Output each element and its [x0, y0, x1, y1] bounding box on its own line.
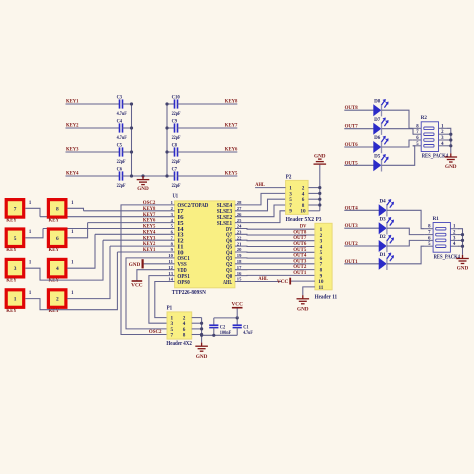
- svg-text:GND: GND: [137, 186, 149, 192]
- header P3 body: [315, 223, 332, 289]
- svg-text:18: 18: [237, 259, 242, 264]
- wire OUT7 into D7: [344, 128, 373, 130]
- svg-text:4.7uF: 4.7uF: [117, 112, 127, 117]
- resistor pack R2: [421, 122, 438, 152]
- wire KEY2 to C4: [66, 127, 120, 129]
- svg-text:D5: D5: [374, 154, 381, 159]
- wire OUT3 into D3: [344, 227, 379, 229]
- capacitor C10: [175, 99, 178, 108]
- wire KEY4 to C6: [66, 175, 120, 177]
- junction P1 gnd line r2: [200, 322, 203, 325]
- svg-text:4: 4: [56, 266, 59, 272]
- wire D1 to R1.5: [387, 246, 425, 264]
- wire C8 to KEY6: [178, 151, 238, 153]
- capacitor C7: [175, 171, 178, 180]
- wire key1 to KEY1 net: [25, 252, 117, 310]
- wire KEY1 net to U1.9: [117, 251, 174, 253]
- svg-text:C5: C5: [117, 143, 123, 148]
- wire right bus to C8: [167, 151, 175, 153]
- wire OUT4 net: U1.19 to P3.6: [235, 257, 315, 259]
- wire OUT8 net: U1.23 to P3.2: [235, 233, 315, 236]
- vcc power port VCC above C1: [232, 307, 243, 309]
- wire R1 joiner 240: [458, 239, 462, 241]
- svg-text:AHL: AHL: [258, 276, 268, 282]
- wire OUT4 into D4: [344, 209, 379, 211]
- svg-text:15: 15: [237, 277, 242, 282]
- svg-text:GND: GND: [314, 154, 326, 160]
- wire R1 pin1 gnd line: [458, 229, 462, 255]
- wire C4 to left bus: [123, 127, 132, 129]
- svg-text:KEY7: KEY7: [225, 122, 238, 128]
- vcc power port VCC at U1.12: [132, 280, 143, 282]
- svg-text:KEY: KEY: [49, 218, 60, 224]
- svg-text:OPS0: OPS0: [177, 279, 189, 286]
- pin stub R1 pin 7: [425, 234, 434, 236]
- svg-text:D3: D3: [380, 217, 387, 222]
- wire right bus to C9: [167, 127, 175, 129]
- ground ground below P3: [297, 295, 310, 304]
- capacitor C8: [175, 147, 178, 156]
- svg-text:27: 27: [237, 206, 242, 211]
- junction right bus bottom: [165, 174, 168, 177]
- svg-text:RES_PACK4: RES_PACK4: [434, 254, 460, 260]
- wire U1.13 OPS1 to P1.3: [149, 276, 175, 324]
- capacitor C9: [175, 123, 178, 132]
- svg-text:5: 5: [171, 224, 174, 229]
- svg-text:KEY: KEY: [6, 247, 17, 253]
- svg-text:D4: D4: [380, 199, 387, 204]
- svg-text:C7: C7: [172, 167, 178, 172]
- svg-text:P2: P2: [286, 174, 292, 180]
- svg-text:4.7uF: 4.7uF: [117, 136, 127, 141]
- resistor element R1c: [436, 239, 446, 242]
- svg-text:P1: P1: [167, 306, 173, 312]
- key pad switch 6: [48, 229, 66, 247]
- svg-text:1: 1: [71, 201, 74, 206]
- svg-text:Header 4X2: Header 4X2: [166, 341, 192, 347]
- svg-text:VCC: VCC: [131, 282, 143, 288]
- junction R1 gnd line 240: [461, 239, 464, 242]
- wire key8 to KEY8 net: [67, 208, 83, 211]
- svg-text:KEY5: KEY5: [225, 170, 238, 176]
- LED D3: [379, 223, 386, 234]
- svg-text:10: 10: [168, 253, 173, 258]
- pin stub R2 pin 7: [413, 133, 422, 135]
- svg-text:6: 6: [171, 230, 174, 235]
- junction gnd rail joins P1 line: [200, 334, 203, 337]
- svg-text:3: 3: [171, 212, 174, 217]
- svg-text:3: 3: [14, 266, 17, 272]
- svg-text:22pF: 22pF: [117, 160, 126, 165]
- junction R2 gnd line 146: [449, 144, 452, 147]
- wire KEY7 net to U1.3: [40, 216, 175, 218]
- pin stub R2 pin 4: [439, 145, 448, 147]
- wire KEY6 net to U1.4: [88, 222, 175, 224]
- svg-text:D6: D6: [374, 136, 381, 141]
- pin stub R2 pin 6: [413, 139, 422, 141]
- svg-text:28: 28: [237, 200, 242, 205]
- junction P2 gnd line row 1: [318, 186, 321, 189]
- svg-text:2: 2: [171, 206, 174, 211]
- svg-text:OSC2: OSC2: [149, 329, 162, 335]
- wire OUT1 net: U1.16 to P3.9: [235, 274, 315, 276]
- svg-text:22pF: 22pF: [172, 136, 181, 141]
- wire key2 to KEY2 net: [67, 246, 110, 299]
- wire C10 to KEY8: [178, 103, 238, 105]
- junction P2 gnd line row 2: [318, 192, 321, 195]
- svg-text:20: 20: [237, 247, 242, 252]
- wire OUT6 net: U1.21 to P3.4: [235, 245, 315, 247]
- svg-text:4: 4: [171, 218, 174, 223]
- svg-text:14: 14: [168, 277, 173, 282]
- svg-text:R1: R1: [433, 216, 439, 222]
- svg-text:C4: C4: [117, 119, 123, 124]
- svg-text:21: 21: [237, 241, 242, 246]
- resistor element R2d: [424, 145, 434, 148]
- svg-text:KEY8: KEY8: [225, 98, 238, 104]
- wire C2 bottom stub: [213, 328, 215, 336]
- wire D2 to R1.6: [387, 240, 425, 246]
- capacitor C3: [120, 99, 123, 108]
- svg-text:7: 7: [171, 235, 174, 240]
- svg-text:D2: D2: [380, 235, 387, 240]
- wire P1.8 to gnd line: [192, 334, 202, 336]
- wire caps gnd rail: [202, 334, 238, 336]
- ground cap network ground: [137, 176, 150, 185]
- junction P2 gnd line row 4: [318, 203, 321, 206]
- svg-text:GND: GND: [457, 266, 469, 272]
- svg-text:4.7uF: 4.7uF: [243, 331, 253, 336]
- wire key7 to KEY7 net: [25, 208, 40, 216]
- wire right bus to C10: [167, 103, 175, 105]
- LED D2: [379, 241, 386, 252]
- pin stub R2 pin 3: [439, 139, 448, 141]
- wire OUT5 net: U1.20 to P3.5: [235, 251, 315, 253]
- wire OSC2 net: U1.1 to P1.7: [121, 205, 175, 335]
- wire C1 bottom stub: [236, 328, 238, 336]
- wire R2 joiner 140: [447, 139, 451, 141]
- svg-text:1: 1: [29, 291, 32, 296]
- wire P1.2 to gnd line: [192, 317, 202, 319]
- IC U1 TTP226-809SN body: [175, 201, 235, 288]
- ground ground below P1: [195, 343, 208, 352]
- wire key4 to KEY4 net: [67, 234, 95, 268]
- svg-text:U1: U1: [173, 193, 179, 199]
- pin stub R1 pin 6: [425, 239, 434, 241]
- key pad switch 8: [48, 200, 66, 218]
- wire OUT1 into D1: [344, 263, 379, 265]
- pin stub R1 pin 3: [450, 239, 459, 241]
- svg-text:C8: C8: [172, 143, 178, 148]
- capacitor C4: [120, 123, 123, 132]
- svg-text:22pF: 22pF: [172, 112, 181, 117]
- wire P1 even pins gnd line: [201, 318, 203, 343]
- svg-text:C2: C2: [220, 325, 226, 330]
- junction GND tap on cap bus: [141, 174, 144, 177]
- wire KEY1 to C3: [66, 103, 120, 105]
- wire R2 pin1 gnd line: [447, 128, 451, 153]
- wire key5 to KEY5 net: [25, 229, 43, 238]
- svg-text:2: 2: [56, 297, 59, 303]
- svg-text:8: 8: [171, 241, 174, 246]
- svg-text:AHL: AHL: [223, 279, 232, 286]
- wire KEY8 net to U1.2: [84, 210, 175, 212]
- wire U1.11 VSS to GND port: [144, 263, 175, 265]
- wire U1.14 OPS0 to P1.1: [155, 282, 175, 318]
- svg-text:VCC: VCC: [231, 302, 243, 308]
- pin stub R1 pin 8: [425, 228, 434, 230]
- wire KEY4 net to U1.6: [95, 233, 175, 235]
- wire KEY3 to C5: [66, 151, 120, 153]
- junction left bus row 152: [130, 150, 133, 153]
- svg-text:13: 13: [168, 271, 173, 276]
- wire R2 joiner 134: [447, 133, 451, 135]
- svg-text:KEY1: KEY1: [143, 247, 156, 253]
- wire D3 to R1.7: [387, 228, 425, 234]
- wire C5 to left bus: [123, 151, 132, 153]
- pin stub R1 pin 1: [450, 228, 459, 230]
- svg-text:1: 1: [29, 201, 32, 206]
- wire key6 to KEY6 net: [67, 223, 88, 238]
- junction right bus row 104: [165, 102, 168, 105]
- resistor element R1a: [436, 227, 446, 230]
- svg-text:AHL: AHL: [255, 182, 265, 188]
- svg-text:19: 19: [237, 253, 242, 258]
- wire D6 to R2.6: [382, 140, 413, 147]
- svg-text:1: 1: [71, 291, 74, 296]
- wire AHL net stub at U1.15: [235, 281, 282, 283]
- svg-text:22: 22: [237, 235, 242, 240]
- wire P1.4 to gnd line: [192, 322, 202, 324]
- wire KEY3 net to U1.7: [103, 239, 175, 241]
- svg-text:11: 11: [318, 285, 323, 291]
- svg-text:1: 1: [14, 297, 17, 303]
- junction R1 gnd line 235: [461, 233, 464, 236]
- ground bar power port at U1.11: [142, 259, 144, 268]
- wire C7 to KEY5: [178, 175, 238, 177]
- pin stub R2 pin 8: [413, 127, 422, 129]
- junction left bus row 128: [130, 126, 133, 129]
- wire D5 to R2.5: [382, 146, 415, 166]
- svg-text:17: 17: [237, 265, 242, 270]
- svg-text:22pF: 22pF: [117, 184, 126, 189]
- svg-text:KEY: KEY: [6, 278, 17, 284]
- key pad switch 5: [6, 229, 24, 247]
- wire C2 top stub: [213, 318, 215, 325]
- junction R2 gnd line 140: [449, 138, 452, 141]
- svg-text:10: 10: [300, 209, 306, 215]
- LED D1: [379, 258, 386, 269]
- wire OUT8 into D8: [344, 109, 373, 111]
- svg-text:OUT1: OUT1: [293, 270, 306, 276]
- wire OUT3 net: U1.18 to P3.7: [235, 263, 315, 265]
- vcc power port at P3.10: [289, 278, 291, 285]
- resistor element R2c: [424, 139, 434, 142]
- LED D4: [379, 205, 386, 216]
- svg-text:1: 1: [71, 261, 74, 266]
- wire C1 top stub: [236, 318, 238, 325]
- resistor element R2b: [424, 133, 434, 136]
- svg-text:C10: C10: [172, 95, 181, 100]
- svg-text:5: 5: [14, 236, 17, 242]
- pin stub R2 pin 2: [439, 133, 448, 135]
- svg-text:KEY: KEY: [6, 308, 17, 314]
- LED D5: [374, 160, 381, 171]
- svg-text:TTP226-809SN: TTP226-809SN: [172, 290, 207, 296]
- svg-text:GND: GND: [196, 354, 208, 360]
- wire P1.6 to gnd line: [192, 328, 202, 330]
- wire D4 to R1.8: [387, 210, 425, 228]
- svg-text:GND: GND: [445, 164, 457, 170]
- resistor element R2a: [424, 127, 434, 130]
- capacitor C1: [233, 325, 242, 327]
- wire R2 joiner 146: [447, 145, 451, 147]
- ground ground at R1: [456, 255, 469, 264]
- LED D8: [374, 105, 381, 116]
- wire KEY5 net to U1.5: [43, 228, 175, 230]
- svg-text:1: 1: [71, 230, 74, 235]
- wire D8 to R2.8: [382, 110, 413, 128]
- resistor element R1b: [436, 233, 446, 236]
- pin stub R2 pin 1: [439, 127, 448, 129]
- wire right cap bus: [166, 104, 168, 176]
- wire C9 to KEY7: [178, 127, 238, 129]
- key pad switch 3: [6, 259, 24, 277]
- wire U1.26 to P2.7: [235, 205, 286, 217]
- svg-text:8: 8: [183, 332, 186, 338]
- junction left bus row 104: [130, 102, 133, 105]
- wire KEY2 net to U1.8: [110, 245, 175, 247]
- svg-text:KEY6: KEY6: [225, 146, 238, 152]
- svg-text:1: 1: [29, 230, 32, 235]
- svg-text:23: 23: [237, 230, 242, 235]
- svg-text:7: 7: [14, 206, 17, 212]
- junction C2 bottom junction: [212, 334, 215, 337]
- svg-text:24: 24: [237, 224, 242, 229]
- svg-text:22pF: 22pF: [172, 160, 181, 165]
- svg-text:GND: GND: [297, 306, 309, 312]
- svg-text:Header 5X2: Header 5X2: [286, 217, 315, 223]
- svg-text:9: 9: [171, 247, 174, 252]
- wire R1 joiner 246: [458, 245, 462, 247]
- junction right bus row 128: [165, 126, 168, 129]
- svg-text:R2: R2: [421, 115, 427, 121]
- wire P2.6 to gnd line: [308, 198, 319, 200]
- svg-text:16: 16: [237, 271, 242, 276]
- wire U1.12 VDD to VCC port: [137, 270, 175, 281]
- capacitor C2: [209, 325, 218, 327]
- wire OUT5 into D5: [344, 164, 373, 166]
- wire left cap bus: [131, 104, 133, 176]
- wire P2 even pins to GND: [319, 165, 321, 211]
- svg-text:6: 6: [56, 236, 59, 242]
- svg-text:9: 9: [289, 209, 292, 215]
- junction right bus row 152: [165, 150, 168, 153]
- wire P2.2 to gnd line: [308, 187, 319, 189]
- wire P3.11 to ground: [303, 287, 315, 295]
- wire P2.10 to gnd line: [308, 210, 319, 212]
- pin stub R1 pin 4: [450, 245, 459, 247]
- svg-text:26: 26: [237, 212, 242, 217]
- wire DV net: U1.24 to P3.1: [235, 228, 315, 231]
- wire C3 to left bus: [123, 103, 132, 105]
- svg-text:C1: C1: [243, 325, 249, 330]
- key pad switch 2: [48, 290, 66, 308]
- svg-text:Header 11: Header 11: [315, 294, 338, 300]
- svg-text:C9: C9: [172, 119, 178, 124]
- key pad switch 7: [6, 200, 24, 218]
- svg-text:7: 7: [171, 332, 174, 338]
- wire U1.25 to P2.9: [235, 211, 286, 223]
- wire VCC stub up: [236, 308, 238, 318]
- capacitor C5: [120, 147, 123, 156]
- svg-text:RES_PACK4: RES_PACK4: [422, 154, 448, 160]
- junction C1 top junction: [236, 316, 239, 319]
- pin stub R2 pin 5: [413, 145, 422, 147]
- svg-text:D8: D8: [374, 99, 381, 104]
- svg-text:KEY: KEY: [6, 218, 17, 224]
- pin stub R1 pin 5: [425, 245, 434, 247]
- wire P2.8 to gnd line: [308, 204, 319, 206]
- key pad switch 4: [48, 259, 66, 277]
- capacitor C6: [120, 171, 123, 180]
- wire OUT7 net: U1.22 to P3.3: [235, 239, 315, 242]
- wire AHL net to P2.1: [255, 187, 286, 189]
- wire U1.28 to P2.3: [235, 193, 286, 205]
- svg-text:25: 25: [237, 218, 242, 223]
- svg-text:1: 1: [29, 261, 32, 266]
- header P2 body: [286, 180, 309, 214]
- wire OUT2 net: U1.17 to P3.8: [235, 269, 315, 271]
- header P1 body: [167, 312, 192, 339]
- junction P1 gnd line r3: [200, 327, 203, 330]
- svg-text:C6: C6: [117, 167, 123, 172]
- wire VCC to P3.10: [291, 280, 315, 282]
- svg-text:22pF: 22pF: [172, 184, 181, 189]
- wire P2.4 to gnd line: [308, 192, 319, 194]
- junction R2 gnd line 134: [449, 133, 452, 136]
- ground ground above P2: [314, 159, 327, 164]
- svg-text:1: 1: [171, 200, 174, 205]
- LED D6: [374, 142, 381, 153]
- wire key3 to KEY3 net: [25, 240, 103, 280]
- junction left bus bottom: [130, 174, 133, 177]
- svg-text:12: 12: [168, 265, 173, 270]
- wire OSC1 net: U1.10 to P1.5: [126, 258, 175, 329]
- svg-text:D7: D7: [374, 118, 381, 123]
- svg-text:11: 11: [169, 259, 174, 264]
- ground ground at R2: [445, 153, 458, 162]
- junction R1 gnd line 246: [461, 245, 464, 248]
- wire VCC rail over caps: [214, 317, 237, 319]
- svg-text:D1: D1: [380, 253, 387, 258]
- wire C6 to GND bus row: [123, 175, 175, 177]
- svg-text:VCC: VCC: [277, 279, 289, 285]
- pin stub R1 pin 2: [450, 234, 459, 236]
- wire OUT6 into D6: [344, 146, 373, 148]
- svg-text:GND: GND: [129, 262, 141, 268]
- resistor pack R1: [433, 223, 450, 253]
- wire OUT2 into D2: [344, 245, 379, 247]
- svg-text:KEY: KEY: [49, 247, 60, 253]
- wire D7 to R2.7: [382, 129, 413, 135]
- junction P1 gnd line r4: [200, 333, 203, 336]
- resistor element R1d: [436, 245, 446, 248]
- wire R1 joiner 235: [458, 234, 462, 236]
- svg-text:8: 8: [56, 206, 59, 212]
- svg-text:C3: C3: [117, 95, 123, 100]
- key pad switch 1: [6, 290, 24, 308]
